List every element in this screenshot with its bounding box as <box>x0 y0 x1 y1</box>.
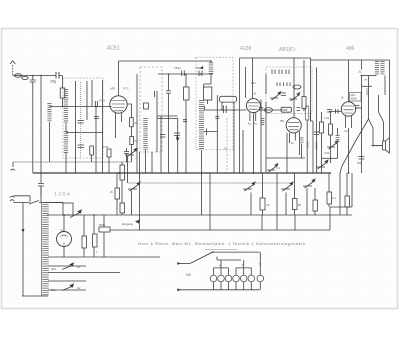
antenna lead <box>13 65 14 76</box>
svg-text:496: 496 <box>346 46 355 52</box>
wire L8 leads <box>204 61 212 87</box>
svg-text:Horn & Röhre, Marz W1, Wechsel: Horn & Röhre, Marz W1, Wechseljahre, 1 T… <box>138 241 305 246</box>
svg-text:4128: 4128 <box>240 46 251 52</box>
bottom bus <box>177 289 260 291</box>
wire R1 down <box>62 98 64 107</box>
ground squiggle <box>11 169 15 170</box>
svg-text:0,1: 0,1 <box>332 196 336 200</box>
resistor R2 100k <box>107 149 111 157</box>
top rail far right <box>311 59 390 61</box>
resistor R17 500k <box>99 227 110 232</box>
wire R14 <box>307 188 315 215</box>
svg-text:100k: 100k <box>103 145 109 149</box>
svg-text:77: 77 <box>364 78 368 82</box>
resistor R6 <box>302 97 306 109</box>
heater line 5 <box>48 289 86 291</box>
grid line to V1 <box>50 106 112 108</box>
mains tilde <box>10 196 14 201</box>
wire x137 <box>136 74 138 173</box>
wire mains upper <box>14 196 31 203</box>
capacitor C13 <box>327 110 332 113</box>
lead arrow lower <box>177 288 181 291</box>
arrow eingang <box>136 220 140 223</box>
wire mains y202 <box>14 203 64 205</box>
wire C1 drop <box>32 82 34 173</box>
wire L10 leads <box>337 128 339 158</box>
speaker LS <box>383 138 390 154</box>
top rail right <box>240 57 311 59</box>
wire x361 anode <box>356 60 362 173</box>
capacitor C16 <box>166 91 170 94</box>
trimmer arrow L8 <box>200 66 204 69</box>
dotted column <box>80 82 82 158</box>
wire x217 <box>216 95 218 173</box>
svg-text:AFD: AFD <box>110 87 115 91</box>
wire L2 down <box>49 122 51 162</box>
meter G <box>57 215 72 257</box>
bias line y162 <box>13 161 131 163</box>
wire R17 drop <box>103 215 105 257</box>
wire R18 <box>83 215 85 257</box>
svg-text:A2: A2 <box>77 286 81 290</box>
coil L5 winding <box>64 131 68 153</box>
capacitor C17 <box>297 108 301 111</box>
wiper VC10 <box>267 164 278 172</box>
grid line to V4 <box>329 110 341 112</box>
resistor R2a <box>90 146 94 155</box>
variable capacitor VC4 <box>281 182 293 191</box>
heater line 2 <box>48 265 86 267</box>
svg-text:2L: 2L <box>359 70 363 74</box>
capacitor bank 2 <box>277 83 290 87</box>
antenna A <box>10 61 15 64</box>
capacitor C6 <box>124 148 129 162</box>
top rail left <box>119 60 212 62</box>
svg-text:AD1P: AD1P <box>351 98 358 101</box>
wire y158b <box>322 157 338 159</box>
svg-text:500k: 500k <box>99 223 106 227</box>
svg-text:750p: 750p <box>174 66 181 70</box>
converter block border <box>239 58 241 173</box>
switch arm <box>190 252 213 263</box>
wire right contact drop <box>259 252 261 275</box>
coil L12 small <box>300 138 304 144</box>
wire to R1 <box>59 76 63 89</box>
capacitor C8 750 <box>199 71 202 77</box>
wire switch sub <box>217 257 241 261</box>
capacitor C11 anode <box>355 106 360 109</box>
variable capacitor VC6 <box>316 160 328 169</box>
wire x277 <box>276 173 278 230</box>
capacitor tick x185 <box>183 120 187 122</box>
wire R6 <box>266 60 304 173</box>
capacitor C7a <box>155 91 158 97</box>
heater line 1 <box>48 256 160 258</box>
svg-text:50a: 50a <box>51 288 56 292</box>
svg-text:V2: V2 <box>344 129 348 133</box>
wire mains bottom <box>22 295 48 297</box>
arrow mains <box>22 229 25 233</box>
resistor R4 <box>130 137 134 145</box>
wire group bus 2 <box>236 260 251 275</box>
wire pair y116 <box>157 116 178 118</box>
svg-text:H2: H2 <box>186 273 191 277</box>
resistor R3 <box>130 118 134 127</box>
wire can1 links <box>66 123 103 173</box>
capacitor C8b <box>174 133 180 140</box>
resistor R19 <box>93 234 98 247</box>
coil L9 osc main <box>199 100 204 150</box>
wire R9 R10 chain <box>121 162 123 215</box>
resistor R15 <box>327 192 332 204</box>
wire x313 <box>311 112 314 173</box>
capacitor C2 2M <box>56 72 59 79</box>
caption underline <box>205 249 237 251</box>
block right border <box>310 58 312 121</box>
trimmer VC7 <box>270 92 281 100</box>
svg-text:97°C: 97°C <box>123 87 129 91</box>
component box in can2 <box>144 103 149 109</box>
variable capacitor VC3 <box>243 182 255 191</box>
contact circles <box>210 275 263 282</box>
wire R5 leads <box>185 74 187 173</box>
wire bus drops <box>262 215 295 230</box>
wire right edge <box>389 60 391 137</box>
capacitor C14 <box>359 157 365 160</box>
coil L1 antenna <box>14 74 21 77</box>
svg-text:97±4: 97±4 <box>99 99 106 103</box>
wire osc verticals <box>222 102 243 173</box>
grid line to V3 <box>259 109 288 111</box>
resistor R9 <box>120 165 125 180</box>
wire y86 out <box>362 85 373 87</box>
svg-text:ACE1: ACE1 <box>107 46 120 52</box>
capacitor C15 <box>160 135 166 138</box>
coil oval small <box>293 85 301 89</box>
switch pivot <box>212 251 214 253</box>
svg-text:Eingang: Eingang <box>122 222 133 226</box>
heater line 3 <box>48 272 120 274</box>
svg-text:0,1: 0,1 <box>276 166 280 170</box>
coil L1b coupling <box>22 76 28 79</box>
tube V1 <box>110 61 129 138</box>
wire R12 <box>262 173 264 215</box>
svg-text:AB1: AB1 <box>251 82 256 85</box>
wire R2 down <box>92 155 109 173</box>
wire can2 drops <box>146 97 158 173</box>
svg-text:50: 50 <box>298 203 302 207</box>
wire can1 inner verticals <box>76 80 103 173</box>
resistor R7a <box>320 122 324 133</box>
coil box T2 grid <box>220 96 237 102</box>
tube V2 <box>246 58 263 173</box>
wire R8 <box>116 173 118 215</box>
svg-text:A1: A1 <box>77 265 81 269</box>
wire R3 <box>128 104 132 137</box>
bus y230 <box>110 229 330 231</box>
svg-text:B: B <box>254 92 256 96</box>
coil L2 antenna winding <box>47 103 51 122</box>
variable capacitor VC1 <box>125 148 137 157</box>
lead arrow upper <box>177 262 181 265</box>
shield can 1 dashed <box>63 78 103 158</box>
wire ground hook <box>12 162 14 167</box>
wire R7b <box>330 112 332 163</box>
svg-text:AB1(F): AB1(F) <box>279 47 295 53</box>
wire R16 <box>346 173 348 215</box>
capacitor C1 <box>30 76 36 82</box>
svg-text:E: E <box>342 96 344 100</box>
wire x41 drop <box>40 76 42 183</box>
capacitor C5c <box>94 117 99 119</box>
wire antenna feed <box>14 75 56 77</box>
wire right corners <box>330 173 352 230</box>
wire y75 out <box>362 75 377 77</box>
svg-text:2Mg: 2Mg <box>50 80 56 84</box>
variable capacitor VC5 <box>303 179 315 188</box>
diode mark <box>176 138 180 141</box>
wire mains left <box>22 203 24 297</box>
svg-text:30a: 30a <box>51 267 56 271</box>
resistor R10 <box>120 203 125 213</box>
coil L10 <box>336 135 340 143</box>
coil L7 IF winding <box>143 118 148 150</box>
resistor R5 <box>184 87 190 100</box>
resistor R14 <box>313 200 318 211</box>
resistor R18 <box>82 236 87 248</box>
switch lead upper <box>177 263 190 265</box>
dashed gang link <box>226 118 228 170</box>
wiper VC9 <box>327 141 338 149</box>
winding leads <box>384 76 386 96</box>
tube V4 <box>341 60 361 173</box>
wire line y74 <box>158 73 213 75</box>
wire y158 <box>266 144 305 159</box>
capacitor bank <box>272 70 289 75</box>
wire R13 <box>286 173 295 215</box>
capacitor C7 750p <box>182 71 185 77</box>
trimmer VC8 <box>289 93 300 101</box>
resistor R7b <box>329 124 333 135</box>
variable capacitor VC2 <box>128 182 140 191</box>
tap bar <box>204 129 217 136</box>
capacitor C10 <box>314 132 319 135</box>
wire x340 <box>339 173 341 215</box>
svg-text:500: 500 <box>357 162 362 165</box>
wire diagonal return <box>340 119 369 173</box>
wire xfmr top <box>41 186 63 203</box>
wire L9 leads <box>202 100 208 215</box>
capacitor C18 <box>336 109 339 114</box>
wire R19 <box>93 215 95 257</box>
svg-text:1,5k: 1,5k <box>324 116 330 120</box>
svg-text:750: 750 <box>280 119 285 123</box>
wiper left <box>70 210 82 218</box>
wire R7a <box>321 112 323 173</box>
wire x161 <box>160 116 162 173</box>
filter box B1 <box>203 87 211 100</box>
heater line 4 <box>48 280 86 282</box>
wire group bus 1 <box>214 260 229 275</box>
heater bus y173 <box>33 172 331 174</box>
output transformer winding b <box>380 61 384 76</box>
coil L11 <box>265 108 273 113</box>
wire mid comb <box>128 152 211 230</box>
bus y215 <box>47 214 352 216</box>
wire x245 <box>245 67 247 98</box>
switch arrow A1 <box>62 263 74 270</box>
barretter box <box>63 203 73 215</box>
resistor R8 <box>115 188 120 199</box>
resistor R1 <box>60 88 65 98</box>
wire to speaker jog a <box>369 76 374 146</box>
wire R15 <box>328 173 330 207</box>
wire R4 <box>131 145 133 163</box>
coil L4 winding <box>64 89 68 123</box>
transformer core line <box>41 202 43 296</box>
coil box V3 grid <box>281 107 292 112</box>
wire x168 with series cap <box>168 74 170 173</box>
shield can 2 dashed <box>140 67 162 152</box>
capacitor C5b <box>95 101 97 107</box>
wire to speaker jog b <box>379 95 384 141</box>
wire VC3 drop <box>250 193 252 216</box>
shield can 3 dashed <box>196 57 233 150</box>
wire x177 diode <box>177 118 179 173</box>
wire switch top <box>213 251 260 253</box>
capacitor C9 <box>224 106 227 114</box>
capacitor C4 <box>78 121 85 124</box>
bus y183 <box>128 182 290 184</box>
resistor R20 <box>306 106 309 120</box>
resistor R13 <box>293 199 298 210</box>
speaker terminal bar <box>372 145 383 147</box>
capacitor C3 <box>38 184 44 198</box>
grid line to V2 <box>204 106 246 110</box>
capacitor tick x217 <box>215 117 219 119</box>
power transformer winding <box>42 202 49 296</box>
svg-text:1064: 1064 <box>54 192 71 198</box>
coil L8 osc top <box>209 63 214 75</box>
tube V3 <box>286 58 301 173</box>
fuse arrow <box>29 201 39 205</box>
output transformer winding a <box>375 61 379 76</box>
contact drops <box>214 282 261 290</box>
wire x234 <box>233 102 235 173</box>
trimmer dashed box <box>266 67 312 114</box>
resistor R12 <box>260 198 265 210</box>
switch arrow A2 <box>62 284 74 291</box>
resistor R16 <box>345 196 350 207</box>
svg-text:3,5k: 3,5k <box>324 151 330 155</box>
svg-text:+: + <box>96 251 98 255</box>
wire R20 drop <box>306 120 308 173</box>
wire x316 <box>316 68 318 174</box>
capacitor C12 <box>281 93 286 96</box>
capacitor C5 <box>78 145 85 148</box>
